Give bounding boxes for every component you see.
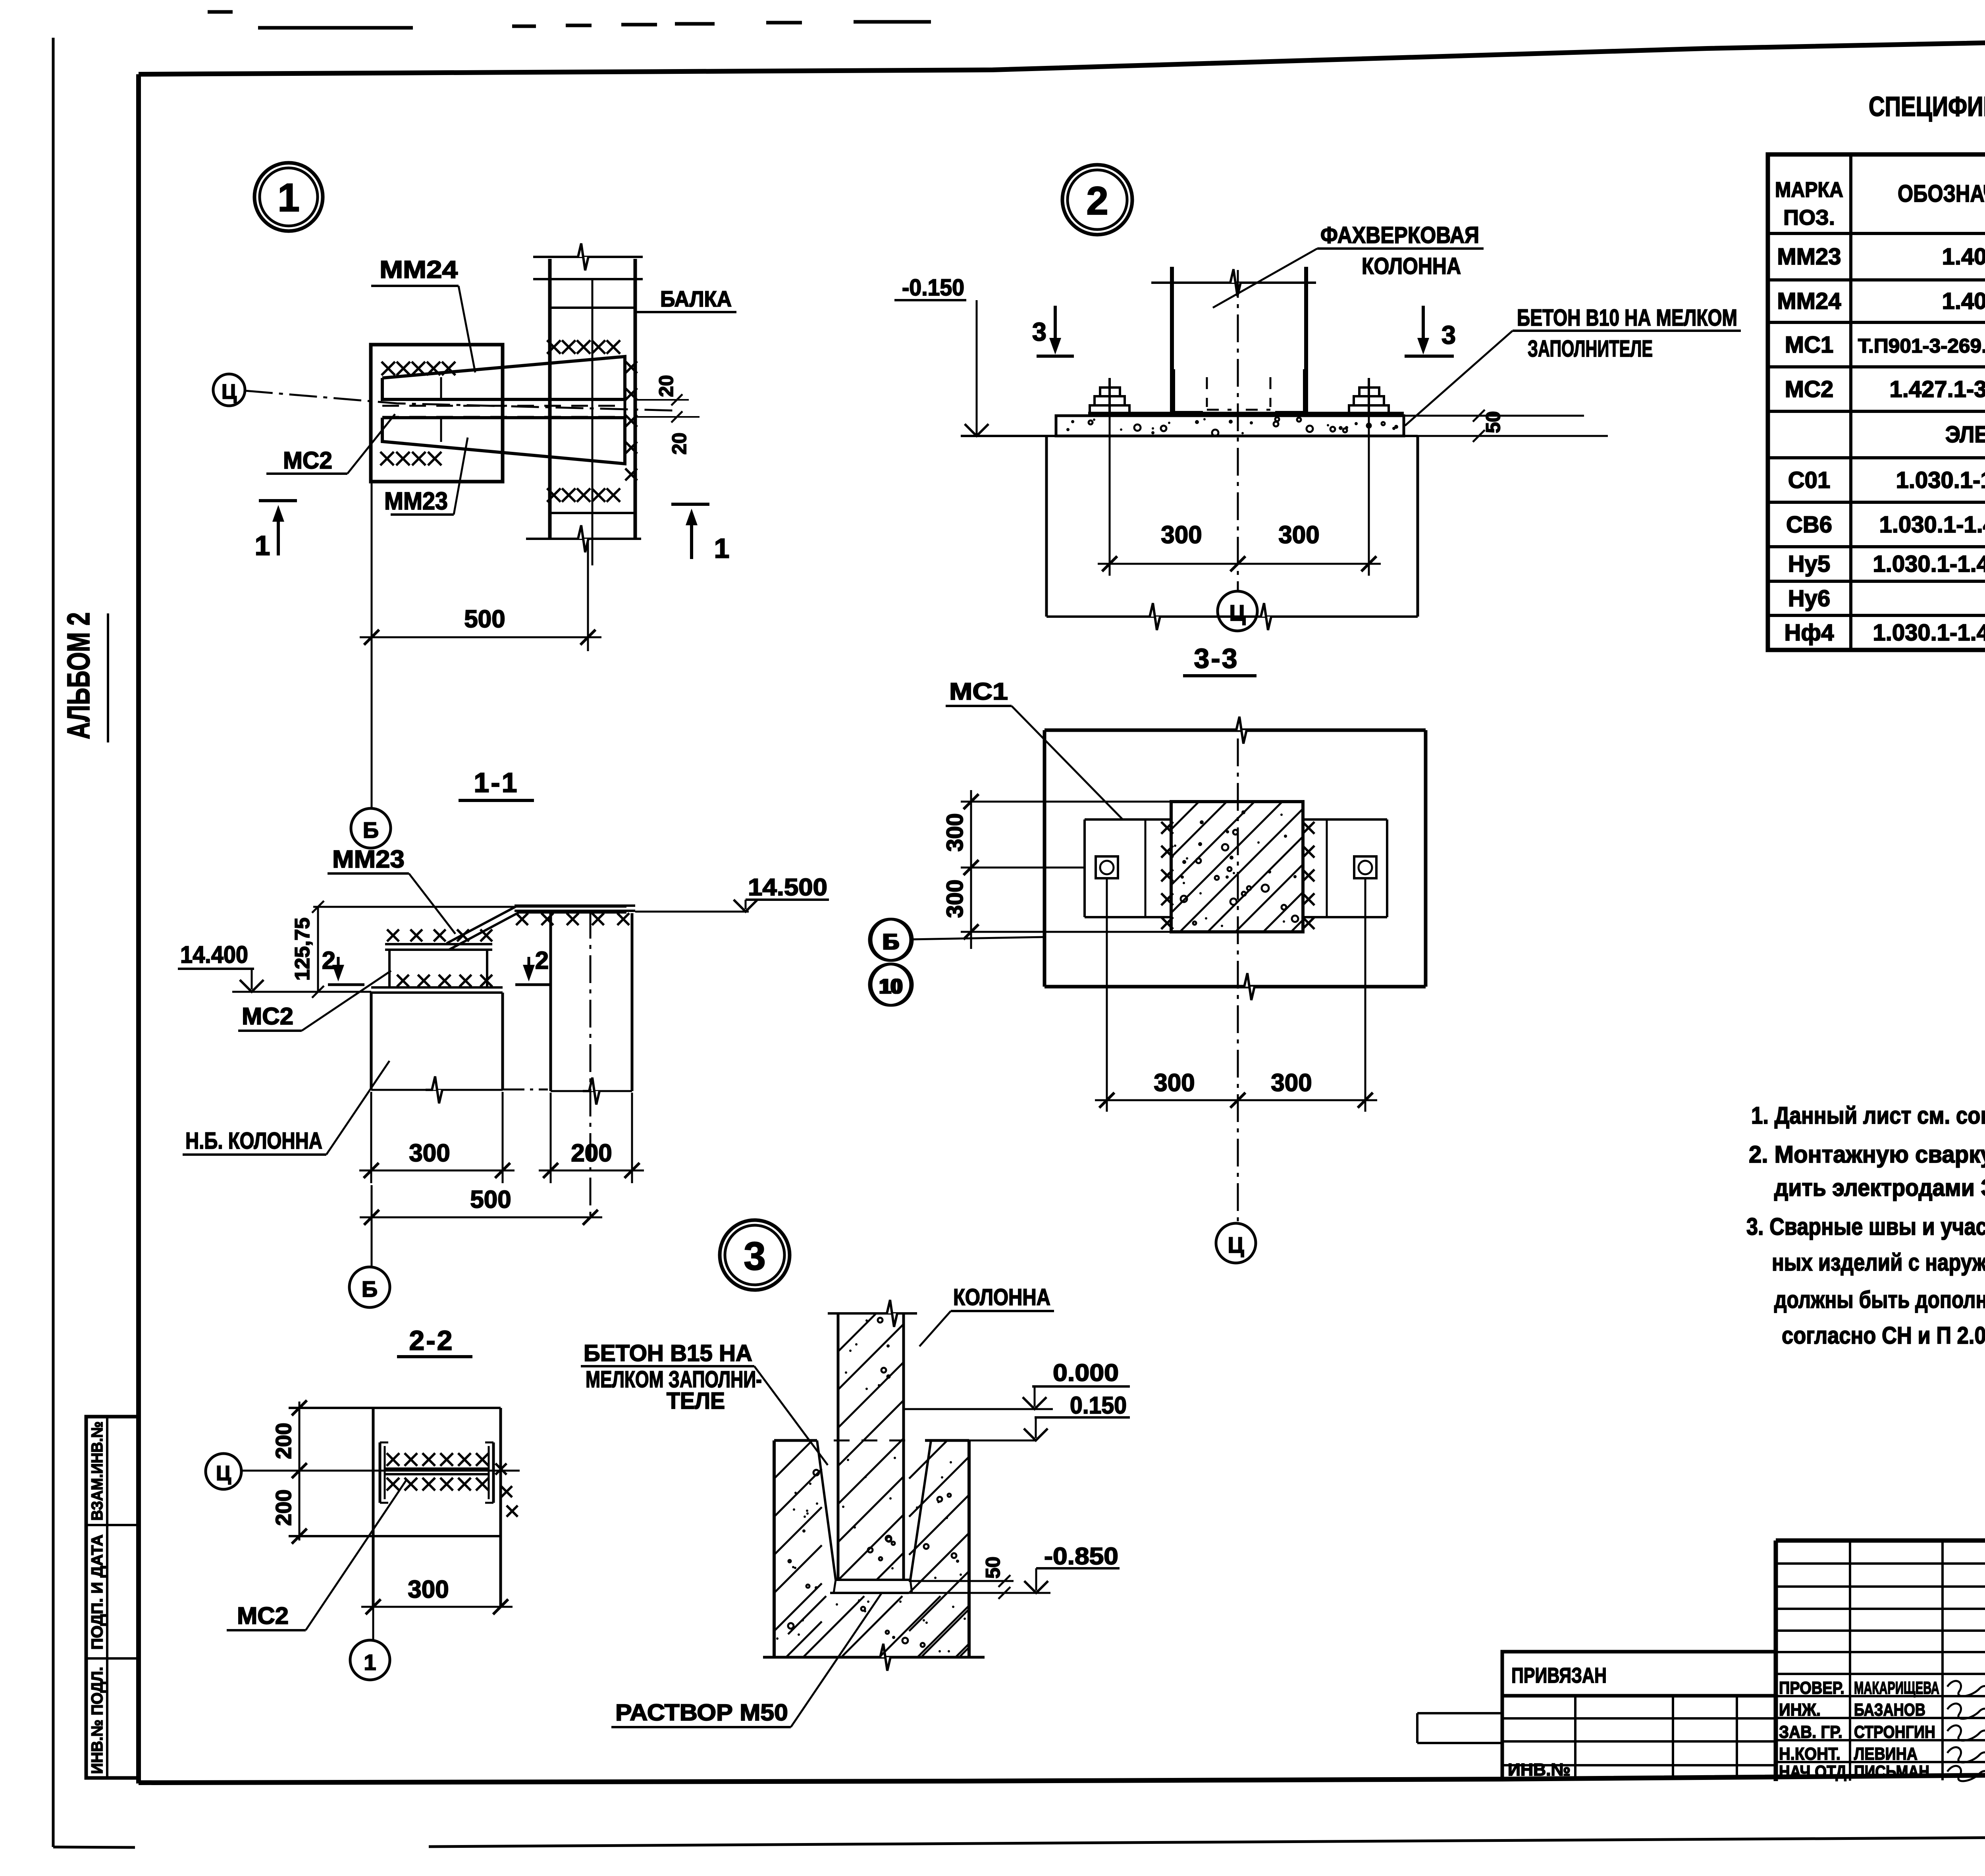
svg-text:20: 20 bbox=[668, 432, 690, 455]
dimension 20 20 right of beam bbox=[635, 399, 689, 401]
dimension 300 300 bottom 3-3 bbox=[1095, 1099, 1377, 1101]
svg-text:Ну6: Ну6 bbox=[1788, 586, 1830, 611]
detail 1 axis line Ts bbox=[245, 391, 675, 411]
detail 2 column top break bbox=[1151, 281, 1316, 284]
detail 1 weld marks bottom right bbox=[547, 488, 561, 502]
detail 2 foundation body bbox=[1045, 436, 1048, 617]
svg-text:1.400-7: 1.400-7 bbox=[1942, 288, 1985, 314]
section 3-3 concrete core hatch bbox=[1171, 802, 1303, 932]
axis circle 10 3-3 bbox=[869, 964, 911, 1005]
bottom paper edge line bbox=[53, 1847, 135, 1847]
svg-text:БЕТОН В15 НА: БЕТОН В15 НА bbox=[584, 1340, 752, 1366]
svg-text:БАЗАНОВ: БАЗАНОВ bbox=[1854, 1700, 1925, 1720]
dimension 300 300 detail 2 bbox=[1098, 563, 1381, 565]
svg-text:-0.150: -0.150 bbox=[902, 275, 964, 301]
svg-text:3: 3 bbox=[1032, 317, 1046, 346]
section 1-1 beam bottom break bbox=[551, 1090, 632, 1092]
svg-text:300: 300 bbox=[1161, 521, 1202, 549]
svg-text:200: 200 bbox=[571, 1139, 612, 1167]
detail bubble 3 bbox=[720, 1220, 790, 1290]
svg-text:1: 1 bbox=[714, 533, 730, 564]
svg-text:ВЗАМ.ИНВ.№: ВЗАМ.ИНВ.№ bbox=[89, 1421, 106, 1521]
svg-text:ПОЗ.: ПОЗ. bbox=[1783, 206, 1835, 229]
svg-text:-0.850: -0.850 bbox=[1044, 1543, 1118, 1569]
svg-text:ИНЖ.: ИНЖ. bbox=[1779, 1700, 1821, 1720]
svg-text:3: 3 bbox=[744, 1234, 766, 1278]
drawing frame top edge bbox=[139, 31, 1985, 74]
section 2-2 I-beam flange left bbox=[379, 1442, 382, 1503]
svg-text:БАЛКА: БАЛКА bbox=[660, 286, 732, 311]
detail 1 weld marks top right bbox=[547, 340, 561, 354]
axis circle Ts 2-2 bbox=[206, 1454, 241, 1489]
svg-text:0.150: 0.150 bbox=[1070, 1392, 1127, 1419]
svg-text:Т.П901-3-269.89КЖИ МС1: Т.П901-3-269.89КЖИ МС1 bbox=[1858, 335, 1985, 357]
privyazan box bbox=[1502, 1652, 1776, 1696]
svg-text:МАКАРИЩЕВА: МАКАРИЩЕВА bbox=[1854, 1678, 1939, 1698]
detail 1 beam transverse lines bbox=[550, 307, 635, 309]
title block left grid rows bbox=[1776, 1562, 1985, 1565]
svg-text:Н.Б. КОЛОННА: Н.Б. КОЛОННА bbox=[185, 1128, 322, 1154]
svg-text:ММ23: ММ23 bbox=[332, 846, 405, 873]
section 2-2 I-beam flange right bbox=[492, 1442, 495, 1503]
axis circle B section 1-1 bottom bbox=[349, 1267, 390, 1307]
spec table grid bbox=[1768, 154, 1985, 650]
svg-text:ЗАВ. ГР.: ЗАВ. ГР. bbox=[1779, 1722, 1842, 1742]
svg-text:ПИСЬМАН: ПИСЬМАН bbox=[1854, 1762, 1929, 1782]
svg-text:МС2: МС2 bbox=[237, 1602, 289, 1629]
svg-text:ПРИВЯЗАН: ПРИВЯЗАН bbox=[1511, 1664, 1607, 1687]
section 1-1 bar webs bbox=[388, 950, 391, 987]
detail 2 base angles bbox=[1174, 369, 1203, 412]
svg-text:МС1: МС1 bbox=[949, 678, 1008, 705]
left paper edge line bbox=[52, 38, 55, 1847]
side stamp boxes bbox=[86, 1417, 138, 1778]
svg-text:СПЕЦИФИКАЦИЯ СОЕДИНИТЕЛЬНЫХ: СПЕЦИФИКАЦИЯ СОЕДИНИТЕЛЬНЫХ ЭЛЕМЕНТОВ bbox=[1869, 91, 1985, 122]
svg-text:300: 300 bbox=[1154, 1069, 1195, 1097]
small box left of privyazan bbox=[1417, 1712, 1502, 1714]
section 1-1 beam top plate bbox=[515, 904, 635, 907]
svg-text:МС2: МС2 bbox=[242, 1003, 293, 1030]
axis circle Ts detail 1 bbox=[213, 374, 245, 406]
detail 1 hidden slot dashed lines bbox=[382, 405, 625, 407]
section 1-1 beam flanges bbox=[549, 913, 552, 1091]
svg-text:2: 2 bbox=[322, 947, 335, 974]
detail 1 beam top break bbox=[533, 256, 643, 258]
svg-text:1: 1 bbox=[255, 530, 270, 561]
svg-text:1: 1 bbox=[278, 175, 300, 220]
svg-text:ИНВ.№ ПОДЛ.: ИНВ.№ ПОДЛ. bbox=[89, 1667, 106, 1774]
svg-text:РАСТВОР М50: РАСТВОР М50 bbox=[615, 1700, 788, 1726]
section 1-1 beam center line bbox=[590, 911, 592, 1217]
svg-text:300: 300 bbox=[408, 1576, 449, 1603]
dimension 500 detail 1 bbox=[360, 636, 601, 638]
svg-text:МС1: МС1 bbox=[1785, 332, 1833, 358]
svg-text:1.030.1-1.4-2-40: 1.030.1-1.4-2-40 bbox=[1896, 467, 1985, 493]
detail 1 gusset plate MM24 outline bbox=[371, 345, 503, 482]
svg-text:20: 20 bbox=[655, 375, 677, 397]
svg-text:1.030.1-1.4-1-010-03: 1.030.1-1.4-1-010-03 bbox=[1873, 620, 1985, 646]
svg-text:ММ24: ММ24 bbox=[1777, 288, 1841, 314]
svg-text:согласно СН и П 2.03.11-85,: согласно СН и П 2.03.11-85, п.п. 2.40-2.… bbox=[1782, 1322, 1985, 1349]
axis circle B right bbox=[871, 919, 912, 960]
dimension 125,75 bbox=[317, 907, 319, 992]
svg-text:КОЛОННА: КОЛОННА bbox=[953, 1284, 1050, 1310]
title block outline bbox=[1776, 1539, 1985, 1543]
detail 2 foundation top line bbox=[961, 435, 1418, 437]
dimension 50 grout right bbox=[1404, 415, 1584, 417]
svg-text:200: 200 bbox=[271, 1423, 296, 1459]
detail 3 foundation hatch bbox=[774, 1440, 812, 1479]
detail 1 weld marks bottom left bbox=[380, 452, 394, 465]
svg-text:50: 50 bbox=[1482, 411, 1504, 433]
svg-text:Ц: Ц bbox=[222, 380, 237, 403]
detail 3 column bbox=[837, 1313, 840, 1580]
section 3-3 anchor right bbox=[1354, 856, 1376, 878]
axis circle B detail 1 bbox=[351, 808, 391, 848]
section 2-2 outline bbox=[289, 1407, 501, 1409]
section 2-2 weld marks right tail bbox=[495, 1463, 507, 1475]
dimension 200 section 1-1 bbox=[539, 1170, 644, 1172]
svg-text:Ц: Ц bbox=[1230, 600, 1246, 625]
svg-text:ИНВ.№: ИНВ.№ bbox=[1508, 1760, 1571, 1780]
svg-text:2: 2 bbox=[535, 947, 549, 974]
svg-text:50: 50 bbox=[982, 1556, 1004, 1579]
detail 3 socket cavity bbox=[817, 1440, 836, 1580]
detail 1 weld marks top left bbox=[382, 362, 395, 375]
privyazan grid bbox=[1501, 1696, 1504, 1780]
svg-text:1. Данный лист см. совместно: 1. Данный лист см. совместно с листом 17… bbox=[1751, 1102, 1985, 1129]
svg-text:НАЧ.ОТД: НАЧ.ОТД bbox=[1779, 1762, 1846, 1782]
section mark 1 left bbox=[259, 499, 297, 502]
svg-text:10: 10 bbox=[880, 975, 903, 998]
section 2-2 weld marks above web bbox=[387, 1453, 399, 1466]
svg-text:ОБОЗНАЧЕНИЕ: ОБОЗНАЧЕНИЕ bbox=[1898, 180, 1985, 207]
section 3-3 embed plate MS1 left bbox=[1085, 818, 1171, 821]
detail 2 center line bbox=[1237, 270, 1239, 591]
svg-text:Н.КОНТ.: Н.КОНТ. bbox=[1779, 1744, 1840, 1764]
svg-text:125,75: 125,75 bbox=[291, 918, 314, 981]
svg-text:С01: С01 bbox=[1788, 467, 1830, 493]
detail 3 foundation outline bbox=[774, 1439, 817, 1442]
section 1-1 weld marks above MS2 plate bbox=[397, 975, 409, 987]
svg-text:500: 500 bbox=[464, 605, 505, 633]
svg-text:СТРОНГИН: СТРОНГИН bbox=[1854, 1722, 1935, 1742]
svg-text:ММ23: ММ23 bbox=[1777, 244, 1841, 270]
detail 2 grout strip concrete B10 bbox=[1056, 416, 1404, 436]
svg-text:300: 300 bbox=[409, 1139, 450, 1167]
svg-text:дить электродами Э-42 ГОСТ9: дить электродами Э-42 ГОСТ9467-75, h(кат… bbox=[1774, 1174, 1985, 1201]
detail bubble 2 bbox=[1062, 165, 1132, 235]
svg-text:ММ24: ММ24 bbox=[380, 256, 458, 283]
detail 1 bar end plate bbox=[624, 357, 626, 464]
svg-text:Б: Б bbox=[884, 929, 900, 954]
dimension 300 300 vertical left bbox=[970, 790, 972, 949]
top scan dash artifacts bbox=[208, 10, 233, 14]
svg-text:3: 3 bbox=[1442, 320, 1456, 349]
detail 2 anchor bolt left bbox=[1090, 405, 1129, 416]
detail 1 beam verticals bbox=[548, 259, 552, 539]
svg-text:14.500: 14.500 bbox=[748, 874, 827, 900]
axis circle B 3-3 bbox=[869, 919, 911, 960]
section 3-3 weld marks left edge bbox=[1161, 822, 1173, 834]
section 2-2 axis line bbox=[242, 1470, 520, 1472]
section 2-2 weld marks below web bbox=[387, 1478, 399, 1490]
dimension 300 section 1-1 bbox=[359, 1170, 515, 1172]
dimension 300 2-2 bbox=[361, 1606, 513, 1608]
svg-text:1.427.1-3.2-0-250: 1.427.1-3.2-0-250 bbox=[1889, 376, 1985, 402]
axis circle 10 right bbox=[871, 964, 912, 1005]
svg-text:ПОДП. И ДАТА: ПОДП. И ДАТА bbox=[89, 1535, 106, 1650]
svg-text:Б: Б bbox=[362, 1276, 378, 1301]
section 1-1 weld marks above top plate bbox=[387, 929, 399, 941]
section mark 1 right bbox=[671, 503, 709, 506]
detail bubble 1 bbox=[254, 163, 323, 231]
section 1-1 weld marks under beam top plate bbox=[516, 913, 528, 925]
axis circle Ts detail 2 bbox=[1218, 591, 1257, 631]
svg-text:1.400-7: 1.400-7 bbox=[1942, 244, 1985, 270]
svg-text:ТЕЛЕ: ТЕЛЕ bbox=[667, 1388, 725, 1414]
svg-text:АЛЬБОМ 2: АЛЬБОМ 2 bbox=[61, 612, 96, 739]
svg-text:300: 300 bbox=[942, 813, 968, 852]
svg-text:МС2: МС2 bbox=[283, 447, 332, 474]
detail 1 beam bottom break bbox=[526, 538, 641, 540]
drawing frame left edge bbox=[136, 74, 141, 1783]
detail 1 weld marks end column bbox=[625, 361, 637, 373]
svg-text:ММ23: ММ23 bbox=[384, 488, 448, 515]
svg-text:2. Монтажную сварку элементо: 2. Монтажную сварку элементов крепления … bbox=[1749, 1141, 1985, 1168]
svg-text:КОЛОННА: КОЛОННА bbox=[1362, 253, 1461, 279]
axis circle 1 2-2 bbox=[350, 1640, 390, 1680]
section 1-1 top plate bbox=[385, 943, 492, 945]
detail 1 top wedge bar bbox=[382, 357, 625, 399]
dimension 200 200 vertical 2-2 bbox=[299, 1402, 301, 1541]
svg-text:1.030.1-1.4-1-020-04: 1.030.1-1.4-1-020-04 bbox=[1873, 551, 1985, 577]
dimension 50 detail 3 bbox=[909, 1580, 1014, 1582]
detail 2 anchor bolt right bbox=[1349, 405, 1389, 416]
svg-text:2: 2 bbox=[1086, 179, 1108, 223]
detail 1 bottom wedge bar MM23 bbox=[382, 418, 625, 464]
svg-text:Ц: Ц bbox=[216, 1462, 231, 1485]
svg-text:3-3: 3-3 bbox=[1194, 643, 1239, 674]
svg-text:200: 200 bbox=[271, 1489, 296, 1526]
section 3-3 vertical center line bbox=[1237, 738, 1239, 1223]
svg-text:Нф4: Нф4 bbox=[1785, 620, 1834, 646]
title block left grid columns bbox=[1849, 1541, 1851, 1781]
detail 2 fachwerk column bbox=[1170, 267, 1174, 414]
section 3-3 weld marks right edge bbox=[1303, 822, 1314, 834]
title block signatures bbox=[1947, 1681, 1985, 1696]
svg-text:300: 300 bbox=[1278, 521, 1319, 549]
svg-text:300: 300 bbox=[1271, 1069, 1312, 1097]
section 2-2 I-beam web bbox=[385, 1467, 489, 1470]
svg-text:3. Сварные швы и участки з: 3. Сварные швы и участки закладных и сое… bbox=[1746, 1213, 1985, 1240]
svg-text:14.400: 14.400 bbox=[180, 941, 248, 968]
svg-text:МС2: МС2 bbox=[1785, 376, 1833, 402]
detail 2 base plate bbox=[1088, 412, 1404, 416]
svg-text:2-2: 2-2 bbox=[409, 1325, 454, 1356]
section 3-3 anchor left bbox=[1096, 856, 1118, 878]
svg-text:ЭЛЕМЕНТЫ ТОРЦОВОГО ФАХВЕРКА: ЭЛЕМЕНТЫ ТОРЦОВОГО ФАХВЕРКА bbox=[1945, 422, 1985, 447]
svg-text:1: 1 bbox=[364, 1650, 376, 1675]
svg-text:ных изделий с наружным защ: ных изделий с наружным защитным покрытие… bbox=[1772, 1249, 1985, 1276]
section 1-1 concrete column bbox=[370, 993, 373, 1090]
section 3-3 band outline bbox=[1045, 729, 1426, 732]
svg-text:1.030.1-1.4-2-50-05: 1.030.1-1.4-2-50-05 bbox=[1879, 512, 1985, 538]
section 1-1 bent plate MM23 bbox=[447, 906, 626, 943]
axis circle Ts 3-3 bottom bbox=[1216, 1223, 1256, 1263]
svg-text:СВ6: СВ6 bbox=[1786, 512, 1832, 538]
dimension 500 section 1-1 bbox=[360, 1217, 602, 1219]
svg-text:должны быть дополнительно: должны быть дополнительно металлизирован… bbox=[1774, 1286, 1985, 1313]
svg-text:БЕТОН В10 НА МЕЛКОМ: БЕТОН В10 НА МЕЛКОМ bbox=[1517, 305, 1737, 331]
axis B line bbox=[911, 937, 1045, 939]
svg-text:Ну5: Ну5 bbox=[1788, 551, 1830, 577]
detail 1 beam center line bbox=[592, 279, 594, 565]
svg-text:300: 300 bbox=[942, 879, 968, 918]
svg-text:ПРОВЕР.: ПРОВЕР. bbox=[1779, 1678, 1844, 1698]
svg-text:500: 500 bbox=[470, 1186, 511, 1213]
svg-text:1-1: 1-1 bbox=[474, 767, 518, 798]
svg-text:МАРКА: МАРКА bbox=[1775, 178, 1843, 202]
svg-text:Ц: Ц bbox=[1228, 1232, 1244, 1257]
drawing frame bottom edge bbox=[139, 1771, 1985, 1783]
svg-text:ЛЕВИНА: ЛЕВИНА bbox=[1854, 1744, 1918, 1764]
svg-text:ЗАПОЛНИТЕЛЕ: ЗАПОЛНИТЕЛЕ bbox=[1528, 336, 1653, 362]
svg-text:0.000: 0.000 bbox=[1053, 1359, 1119, 1386]
svg-text:ФАХВЕРКОВАЯ: ФАХВЕРКОВАЯ bbox=[1320, 222, 1479, 248]
svg-text:Б: Б bbox=[363, 817, 379, 843]
section 1-1 plate MS2 bbox=[371, 986, 503, 989]
section 3-3 embed plate MS1 right bbox=[1303, 818, 1387, 821]
